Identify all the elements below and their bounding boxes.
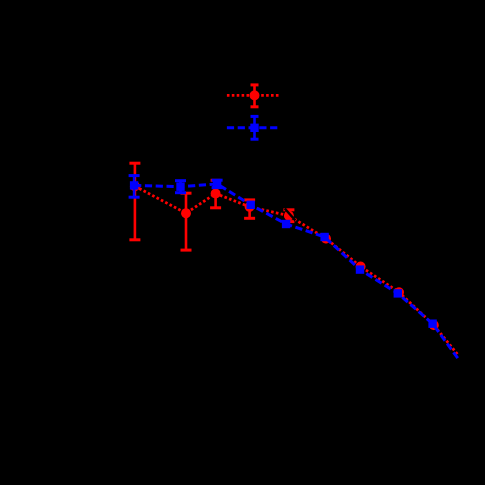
black reference line slash over P5 — [285, 209, 296, 221]
legend: blue entry — [227, 116, 281, 139]
red dotted data line — [135, 186, 459, 355]
red series error bars — [135, 163, 289, 250]
legend: red entry — [227, 85, 281, 107]
red circle markers — [130, 181, 439, 330]
blue square markers — [130, 180, 437, 328]
blue series error bars — [134, 176, 217, 198]
red series error bar caps — [129, 163, 294, 250]
blue dashed data line — [134, 184, 458, 359]
blue series error bar caps — [129, 176, 223, 198]
